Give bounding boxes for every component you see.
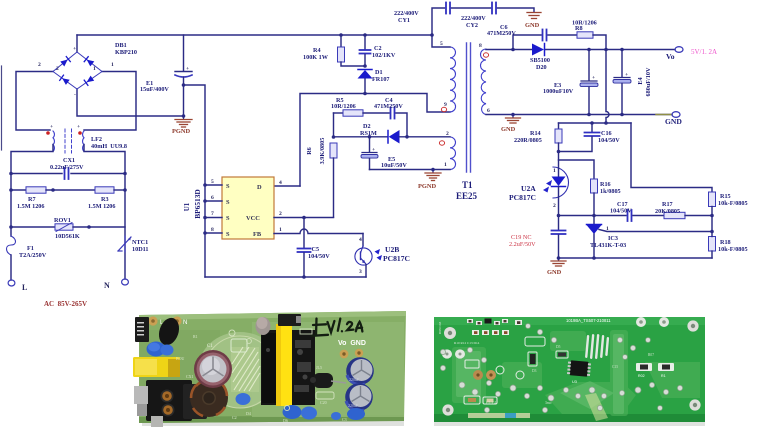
svg-text:D: D bbox=[257, 184, 262, 191]
svg-text:R6: R6 bbox=[306, 147, 313, 155]
svg-text:R07: R07 bbox=[648, 353, 654, 357]
svg-text:R1: R1 bbox=[661, 374, 666, 378]
transformer black body bbox=[261, 330, 315, 405]
wire B+ top rail bbox=[77, 34, 432, 36]
node E1 minus bbox=[182, 83, 186, 87]
svg-text:3.9K/0805: 3.9K/0805 bbox=[319, 138, 326, 165]
resistor R15 bbox=[709, 192, 716, 207]
svg-text:R17: R17 bbox=[662, 201, 673, 208]
SOIC-8 chip bbox=[567, 360, 591, 377]
svg-text:C15: C15 bbox=[612, 365, 618, 369]
axial inductor bbox=[313, 373, 333, 388]
svg-text:NTC1: NTC1 bbox=[132, 239, 148, 246]
svg-text:CX1: CX1 bbox=[63, 157, 75, 164]
transformer T1 aux winding bbox=[450, 137, 456, 170]
silkscreen pale zones bbox=[198, 332, 282, 408]
svg-text:R18: R18 bbox=[720, 239, 731, 246]
inductor LF2 common-mode choke bbox=[53, 131, 84, 151]
svg-text:S: S bbox=[226, 183, 230, 190]
wire sense row bbox=[559, 122, 632, 124]
svg-text:KBP210: KBP210 bbox=[115, 49, 137, 56]
wire R16 top link bbox=[559, 160, 595, 179]
corner pads bbox=[442, 320, 700, 415]
svg-text:1000uF10V: 1000uF10V bbox=[543, 88, 574, 95]
wire VCC stub bbox=[274, 217, 334, 219]
svg-text:U2A: U2A bbox=[521, 184, 536, 193]
capacitor E5 bbox=[368, 135, 372, 139]
small silkscreen marks bbox=[229, 329, 334, 411]
svg-text:PGND: PGND bbox=[172, 128, 190, 135]
electrolytic capacitor right 2 bbox=[345, 383, 373, 411]
svg-text:3mo: 3mo bbox=[545, 401, 552, 405]
wire output rail bbox=[513, 49, 532, 51]
svg-text:D4: D4 bbox=[246, 411, 251, 416]
svg-text:1: 1 bbox=[93, 66, 96, 72]
svg-text:D5: D5 bbox=[556, 345, 561, 349]
IC U1 BP6513D bbox=[222, 177, 274, 239]
svg-text:5: 5 bbox=[440, 41, 443, 47]
wire drain node bbox=[363, 92, 367, 96]
electrolytic capacitor top right 1 bbox=[346, 357, 374, 385]
svg-text:7: 7 bbox=[211, 211, 214, 217]
svg-text:R10 R12 C13 D14: R10 R12 C13 D14 bbox=[454, 341, 480, 345]
terminal N bbox=[122, 279, 129, 285]
resistor R6 bbox=[330, 143, 337, 158]
diode D2 RS1M bbox=[334, 136, 388, 138]
svg-text:6: 6 bbox=[211, 195, 214, 201]
terminal GND output bbox=[672, 112, 680, 118]
svg-text:-: - bbox=[74, 92, 76, 98]
SMD cluster top-left bbox=[438, 319, 522, 346]
svg-text:R16: R16 bbox=[600, 181, 611, 188]
wire LF2 right bottom to right bus bbox=[84, 145, 125, 280]
svg-text:S: S bbox=[226, 215, 230, 222]
svg-text:GND: GND bbox=[665, 117, 682, 126]
svg-text:104/50V: 104/50V bbox=[308, 253, 330, 260]
wire bottom source rail bbox=[205, 276, 366, 278]
wire bridge right to LF2 bbox=[84, 72, 136, 131]
svg-text:CY2: CY2 bbox=[466, 22, 478, 29]
svg-text:10k-F/0805: 10k-F/0805 bbox=[718, 246, 748, 253]
terminal block bbox=[146, 380, 192, 421]
capacitor C17 bbox=[594, 215, 626, 217]
svg-text:VCC: VCC bbox=[246, 215, 260, 222]
svg-text:CX1: CX1 bbox=[186, 374, 194, 379]
capacitor E1 bbox=[183, 35, 185, 71]
svg-text:471M250V: 471M250V bbox=[374, 103, 403, 110]
svg-text:U2B: U2B bbox=[385, 245, 399, 254]
svg-text:E4: E4 bbox=[637, 77, 644, 84]
svg-text:8: 8 bbox=[479, 43, 482, 49]
svg-text:C20: C20 bbox=[320, 400, 327, 405]
fuse F1 bbox=[7, 236, 16, 255]
wire TL431 ref bbox=[599, 230, 712, 232]
capacitor CX1 bbox=[11, 173, 62, 175]
ground GND (pin 6) bbox=[511, 113, 515, 117]
opto transistor U2B bbox=[362, 234, 364, 247]
svg-text:T1: T1 bbox=[462, 180, 473, 190]
svg-text:Vo GND: Vo GND bbox=[338, 340, 366, 347]
resistor R4 bbox=[340, 35, 342, 47]
svg-text:2.2uF/50V: 2.2uF/50V bbox=[509, 241, 536, 248]
svg-text:10D11: 10D11 bbox=[132, 246, 149, 253]
svg-text:6: 6 bbox=[487, 108, 490, 114]
wire cathode row bbox=[559, 215, 595, 217]
svg-text:10uF/50V: 10uF/50V bbox=[381, 162, 407, 169]
svg-text:1019BA_TS507-210811: 1019BA_TS507-210811 bbox=[566, 318, 611, 323]
svg-text:4: 4 bbox=[359, 237, 362, 243]
wire source pins bus bbox=[205, 184, 222, 186]
wire FB stub with hop bbox=[274, 229, 363, 234]
wire R5 left to R6 node bbox=[333, 113, 335, 137]
svg-text:0.22uF/275V: 0.22uF/275V bbox=[50, 164, 84, 171]
node B+ at R4 bbox=[339, 33, 343, 37]
resistor R3 bbox=[95, 187, 114, 193]
svg-text:220R/0805: 220R/0805 bbox=[514, 137, 542, 144]
svg-text:+: + bbox=[372, 147, 375, 153]
svg-text:IC3: IC3 bbox=[608, 235, 618, 242]
svg-text:+: + bbox=[625, 72, 628, 78]
svg-text:1: 1 bbox=[606, 226, 609, 232]
resistor R16 bbox=[591, 179, 598, 193]
PHOTOS bbox=[133, 311, 406, 427]
svg-text:C16: C16 bbox=[601, 130, 612, 137]
svg-text:102/1KV: 102/1KV bbox=[372, 52, 396, 59]
capacitor E3 bbox=[587, 48, 591, 52]
svg-text:20K/0805: 20K/0805 bbox=[655, 208, 680, 215]
capacitor CY2 bbox=[491, 3, 493, 14]
wire aux return bbox=[370, 169, 451, 171]
svg-text:C1: C1 bbox=[207, 344, 213, 349]
svg-text:220uF: 220uF bbox=[348, 403, 359, 408]
svg-text:SB5100: SB5100 bbox=[530, 57, 550, 64]
svg-text:4: 4 bbox=[279, 180, 282, 186]
svg-text:100K 1W: 100K 1W bbox=[303, 54, 329, 61]
copper pads bbox=[473, 370, 483, 380]
svg-text:8: 8 bbox=[211, 227, 214, 233]
blue disc capacitors bbox=[147, 342, 166, 357]
svg-text:2: 2 bbox=[553, 203, 556, 209]
bottom blue discs bbox=[236, 393, 251, 405]
node R8 return bbox=[604, 48, 608, 52]
svg-text:R15: R15 bbox=[720, 193, 731, 200]
svg-text:GND: GND bbox=[501, 126, 516, 133]
resistor R7 bbox=[11, 189, 26, 191]
svg-text:R02: R02 bbox=[638, 374, 645, 378]
svg-text:C5: C5 bbox=[312, 246, 320, 253]
svg-text:+: + bbox=[73, 46, 76, 52]
svg-text:FR107: FR107 bbox=[372, 76, 390, 83]
ground PGND (aux) bbox=[425, 170, 441, 181]
big electrolytic E1 (top view) bbox=[194, 350, 232, 388]
capacitor C6 snubber bbox=[513, 35, 541, 50]
svg-text:PC817C: PC817C bbox=[509, 193, 536, 202]
resistor R14 bbox=[558, 123, 560, 129]
svg-text:EE25: EE25 bbox=[456, 191, 478, 201]
svg-text:LF2: LF2 bbox=[91, 136, 102, 143]
svg-text:1.5M 1206: 1.5M 1206 bbox=[88, 203, 116, 210]
svg-text:+: + bbox=[186, 66, 189, 72]
right PCB photo board bbox=[434, 317, 705, 422]
pale strips bottom bbox=[468, 413, 530, 418]
svg-text:1: 1 bbox=[553, 168, 556, 174]
svg-text:F1: F1 bbox=[27, 245, 34, 252]
shunt reference IC3 TL431 bbox=[593, 216, 595, 225]
NTC thermistor disc bbox=[156, 315, 183, 348]
svg-text:D1: D1 bbox=[375, 69, 383, 76]
svg-text:DB1: DB1 bbox=[115, 42, 127, 49]
svg-text:C2: C2 bbox=[374, 45, 382, 52]
film capacitor CX1 (yellow) bbox=[133, 357, 180, 377]
toroid inductor bbox=[190, 379, 228, 417]
left PCB photo board bbox=[139, 311, 406, 423]
svg-text:D6: D6 bbox=[283, 418, 288, 423]
svg-text:U3: U3 bbox=[572, 380, 577, 384]
svg-text:222/400V: 222/400V bbox=[394, 10, 419, 17]
varistor ROV1 bbox=[11, 226, 55, 228]
wire Vo sense drop with hop bbox=[606, 50, 609, 124]
svg-text:U1: U1 bbox=[183, 202, 191, 211]
wire LF2 left bottom to left bus bbox=[11, 145, 53, 237]
screw pads L N bbox=[148, 316, 157, 325]
svg-text:10D561K: 10D561K bbox=[55, 233, 80, 240]
right side SMD resistors bbox=[636, 363, 674, 378]
svg-text:222/400V: 222/400V bbox=[461, 15, 486, 22]
diode bridge DB1 bbox=[53, 52, 102, 89]
resistor R8 bbox=[577, 32, 593, 38]
svg-text:GND: GND bbox=[547, 269, 562, 276]
wire D pin stub bbox=[274, 185, 300, 187]
terminal GND output lead bbox=[656, 114, 671, 116]
capacitor C19 NC bbox=[558, 216, 560, 230]
svg-text:N: N bbox=[104, 281, 110, 290]
transformer T1 primary winding bbox=[450, 47, 456, 112]
ground GND (CY2) bbox=[527, 13, 541, 19]
svg-text:1: 1 bbox=[279, 227, 282, 233]
trace polygons bbox=[452, 330, 700, 416]
component outlines middle bbox=[465, 337, 568, 379]
svg-text:PGND: PGND bbox=[418, 183, 436, 190]
svg-text:T2A/250V: T2A/250V bbox=[19, 252, 47, 259]
wire Vo to divider bbox=[631, 123, 712, 192]
svg-text:680uF/10V: 680uF/10V bbox=[645, 67, 652, 96]
svg-text:D3: D3 bbox=[532, 369, 537, 373]
svg-text:N: N bbox=[183, 320, 187, 326]
svg-text:CY1: CY1 bbox=[398, 17, 410, 24]
svg-text:2: 2 bbox=[38, 62, 41, 68]
svg-text:5V/1. 2A: 5V/1. 2A bbox=[691, 48, 717, 56]
svg-text:C19 NC: C19 NC bbox=[511, 234, 531, 241]
diode D1 FR107 bbox=[363, 64, 367, 68]
node LED anode bbox=[557, 150, 561, 154]
wire bridge top stub bbox=[76, 35, 78, 52]
svg-text:C7 C4: C7 C4 bbox=[486, 401, 496, 405]
svg-text:+: + bbox=[77, 124, 80, 130]
svg-text:Vo: Vo bbox=[666, 52, 675, 61]
wire bridge bottom B- bbox=[77, 89, 183, 116]
svg-text:GND: GND bbox=[525, 22, 540, 29]
svg-text:BP6513D: BP6513D bbox=[193, 189, 202, 219]
svg-text:BOU: BOU bbox=[176, 356, 185, 361]
svg-text:1.5M 1206: 1.5M 1206 bbox=[17, 203, 45, 210]
svg-text:S: S bbox=[226, 199, 230, 206]
svg-text:5: 5 bbox=[211, 179, 214, 185]
capacitor C5 bbox=[303, 218, 305, 248]
resistor R17 bbox=[664, 212, 685, 218]
frame edge line bbox=[1, 66, 3, 150]
svg-text:PC817C: PC817C bbox=[383, 254, 410, 263]
terminal Vo bbox=[675, 47, 683, 53]
svg-text:R1: R1 bbox=[193, 334, 198, 339]
thermistor NTC1 bbox=[124, 236, 126, 252]
svg-text:R08 C03: R08 C03 bbox=[438, 322, 442, 334]
svg-text:FB: FB bbox=[253, 231, 262, 238]
transformer T1 secondary winding bbox=[481, 49, 486, 115]
capacitor C4 bbox=[390, 108, 392, 119]
capacitor E4 bbox=[620, 48, 624, 52]
svg-text:3: 3 bbox=[359, 269, 362, 275]
svg-text:2: 2 bbox=[279, 211, 282, 217]
left PCB shadow bbox=[142, 421, 404, 426]
svg-text:15uF/400V: 15uF/400V bbox=[140, 86, 169, 93]
svg-text:10R/1206: 10R/1206 bbox=[331, 103, 356, 110]
svg-text:+: + bbox=[592, 75, 595, 81]
svg-text:JL5: JL5 bbox=[316, 365, 322, 370]
svg-text:TL431K-T-03: TL431K-T-03 bbox=[590, 242, 626, 249]
solder joints bbox=[440, 324, 682, 413]
svg-text:104/50V: 104/50V bbox=[598, 137, 620, 144]
svg-text:S: S bbox=[226, 231, 230, 238]
capacitor C16 bbox=[591, 123, 593, 132]
transformer pin leads bbox=[585, 334, 609, 359]
svg-text:2: 2 bbox=[56, 66, 59, 72]
svg-text:+: + bbox=[50, 124, 53, 130]
wire bridge left to LF2 bbox=[16, 72, 53, 131]
ground PGND (E1) bbox=[175, 116, 192, 127]
svg-text:471M250V: 471M250V bbox=[487, 30, 516, 37]
opto LED U2A bbox=[553, 167, 569, 198]
svg-text:1: 1 bbox=[111, 62, 114, 68]
svg-text:C2: C2 bbox=[232, 415, 237, 420]
svg-text:R7: R7 bbox=[28, 196, 36, 203]
svg-text:L: L bbox=[22, 283, 27, 292]
small SMD bar top bbox=[278, 314, 301, 326]
svg-text:D2: D2 bbox=[363, 123, 371, 130]
ground GND (feedback) bbox=[551, 258, 566, 266]
svg-text:10k-F/0805: 10k-F/0805 bbox=[718, 200, 748, 207]
svg-text:40mH UU9.8: 40mH UU9.8 bbox=[91, 143, 127, 150]
terminal L bbox=[8, 280, 15, 286]
svg-text:R3: R3 bbox=[101, 196, 109, 203]
diode SB5100 D20 bbox=[532, 44, 544, 56]
stray solder blob top bbox=[256, 317, 271, 335]
transformer yellow tape bbox=[276, 324, 292, 406]
svg-text:C3: C3 bbox=[342, 417, 347, 422]
svg-text:R8: R8 bbox=[575, 25, 583, 32]
wire E1 to source bus bbox=[184, 85, 206, 277]
marker text 5V1.2A bbox=[312, 319, 363, 336]
svg-text:R4: R4 bbox=[313, 47, 321, 54]
transformer core bbox=[466, 43, 468, 172]
misc silkscreen right bbox=[486, 345, 654, 405]
svg-text:ROV1: ROV1 bbox=[54, 217, 71, 224]
svg-text:104/50V: 104/50V bbox=[610, 208, 632, 215]
svg-text:220uF: 220uF bbox=[349, 377, 360, 382]
svg-text:AC 85V-265V: AC 85V-265V bbox=[44, 300, 87, 308]
capacitor CY1 bbox=[430, 33, 434, 37]
svg-text:R14: R14 bbox=[530, 130, 541, 137]
resistor R5 bbox=[334, 112, 344, 114]
resistor R18 bbox=[709, 237, 716, 252]
capacitor C2 bbox=[364, 35, 366, 49]
svg-text:D20: D20 bbox=[536, 64, 547, 71]
svg-text:1k/0805: 1k/0805 bbox=[600, 188, 621, 195]
bridge rectifier (black SIP) bbox=[135, 317, 149, 342]
svg-text:1: 1 bbox=[444, 162, 447, 168]
wire feedback ground row bbox=[559, 257, 713, 259]
